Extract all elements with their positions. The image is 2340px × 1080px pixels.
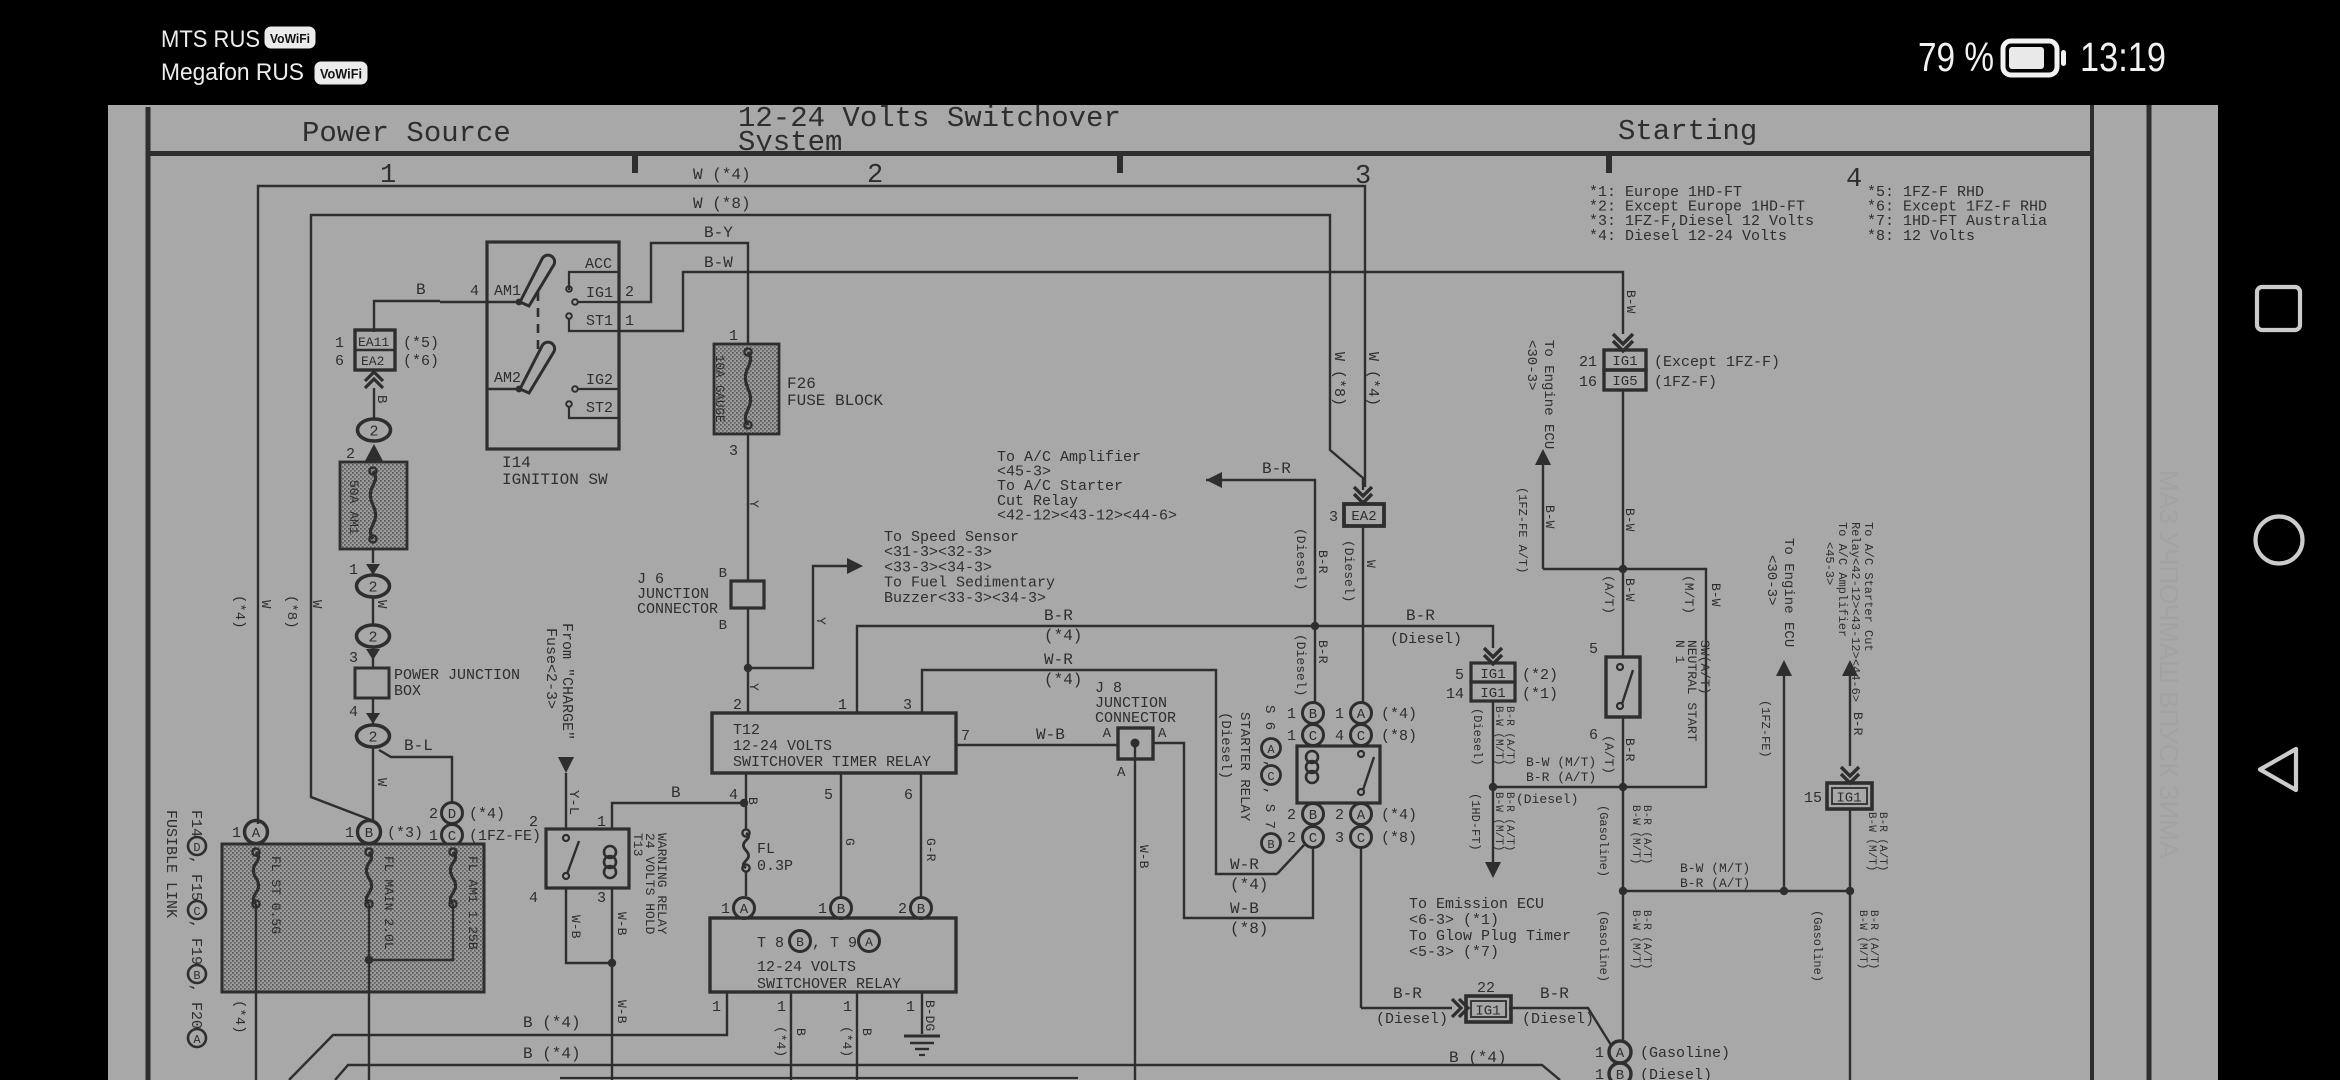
svg-text:(*4): (*4): [773, 1026, 788, 1057]
annotation To A/C Starter Cut Relay (rotated): [1822, 522, 1875, 702]
page right border line inner: [2090, 105, 2094, 1080]
svg-text:4: 4: [470, 283, 479, 300]
svg-text:VoWiFi: VoWiFi: [320, 67, 362, 82]
label (Diesel) rotated: [1217, 712, 1233, 779]
svg-text:W: W: [257, 600, 273, 609]
wire below gasoline junction right: [1810, 891, 1879, 1080]
svg-text:To Emission ECU: To Emission ECU: [1409, 896, 1544, 913]
svg-text:To A/C Starter Cut: To A/C Starter Cut: [1861, 522, 1875, 652]
svg-text:EA2: EA2: [361, 354, 384, 369]
wire G from T12 pin5: [841, 773, 857, 897]
svg-text:B-R (A/T): B-R (A/T): [1503, 706, 1515, 765]
svg-text:, S 7: , S 7: [1261, 787, 1277, 829]
svg-text:6: 6: [335, 353, 344, 370]
svg-text:2: 2: [369, 424, 378, 441]
svg-text:2: 2: [368, 580, 377, 597]
svg-text:IG5: IG5: [1612, 374, 1637, 390]
svg-text:B-R: B-R: [1315, 550, 1330, 574]
battery icon: [2003, 41, 2066, 75]
wire W-R (*4) from T12 pin3: [922, 651, 1277, 874]
svg-text:B: B: [859, 1028, 874, 1036]
svg-text:B-R: B-R: [1540, 985, 1569, 1003]
section number 1: [380, 161, 396, 191]
chevron junction below EA2: [365, 372, 383, 388]
VoWiFi badge 1: [265, 27, 315, 48]
connector EA11/EA2: [335, 330, 439, 370]
connector 1-A (Gasoline): [1595, 1041, 1730, 1063]
fusible link FL ST 0.5G: [252, 848, 283, 1080]
svg-text:4: 4: [349, 704, 358, 721]
svg-text:W (*8): W (*8): [1330, 352, 1347, 406]
svg-text:B-W (M/T): B-W (M/T): [1856, 910, 1868, 969]
svg-text:(Gasoline): (Gasoline): [1596, 910, 1610, 982]
svg-text:IG1: IG1: [1475, 1004, 1500, 1020]
wire below IG1 5/14: [1470, 701, 1515, 791]
wire W-B from T13 pin4: [566, 888, 612, 963]
wire from 3C down to IG1 22: [1361, 848, 1452, 1008]
svg-text:(Gasoline): (Gasoline): [1640, 1045, 1730, 1062]
svg-text:From "CHARGE": From "CHARGE": [558, 623, 575, 740]
svg-text:B-W (M/T): B-W (M/T): [1629, 910, 1641, 969]
label B-R (Diesel) left of IG1 22: [1376, 985, 1448, 1028]
svg-text:Y-L: Y-L: [565, 790, 581, 815]
svg-text:B-W: B-W: [1622, 508, 1637, 532]
arrow into splice: [346, 444, 383, 463]
svg-text:B-W (M/T): B-W (M/T): [1526, 755, 1596, 770]
wire right from diesel junction: [1493, 755, 1706, 787]
svg-text:(*4): (*4): [1381, 807, 1417, 824]
wire W-B from T13 pin3 down: [608, 888, 629, 1080]
svg-text:(Diesel): (Diesel): [1341, 540, 1356, 602]
wire B(*4) from T8/T9 pin1 lower-left: [289, 992, 727, 1080]
junction connector J8: [1095, 680, 1176, 781]
svg-text:A: A: [1117, 765, 1126, 781]
connector 1-A below FL 0.3P: [721, 898, 755, 919]
svg-text:(Diesel): (Diesel): [1293, 634, 1308, 696]
wire B from EA11 to AM1: [374, 281, 440, 332]
svg-text:Diesel 12-24 Volts: Diesel 12-24 Volts: [1625, 228, 1787, 245]
fusible link FL AM1 1.25B: [365, 848, 480, 964]
section number 3: [1355, 162, 1371, 192]
I14 terminal AM2: [487, 370, 522, 392]
svg-text:B: B: [719, 566, 727, 582]
svg-text:B: B: [373, 395, 389, 403]
svg-text:IG2: IG2: [586, 372, 613, 389]
svg-text:B-R: B-R: [1850, 712, 1865, 736]
wire Y from F26 to J6: [746, 434, 761, 581]
svg-text:(*5): (*5): [403, 335, 439, 352]
svg-text:C: C: [1267, 770, 1274, 784]
VoWiFi badge 2: [315, 62, 367, 84]
svg-text:4: 4: [529, 890, 538, 907]
svg-text:B: B: [416, 281, 426, 299]
chevron into IG1 22: [1452, 999, 1468, 1017]
svg-text:Starting: Starting: [1618, 115, 1757, 148]
svg-text:(*8): (*8): [1381, 830, 1417, 847]
svg-text:(*4): (*4): [1230, 876, 1268, 894]
status bar carrier 2: Megafon RUS: [161, 59, 304, 86]
connector IG1 21 / IG5 16: [1579, 350, 1780, 391]
branch Y to speed sensor arrow: [748, 558, 863, 668]
wire W-R diagonal to 2C: [1230, 845, 1304, 894]
status bar carrier 1: MTS RUS: [161, 26, 260, 53]
svg-text:Buzzer<33-3><34-3>: Buzzer<33-3><34-3>: [884, 590, 1046, 607]
bypass wire B-W M/T: [1623, 569, 1723, 788]
pin 1 below 50A AM1: [349, 549, 380, 579]
svg-text:B-R: B-R: [1622, 738, 1637, 762]
svg-text:AM2: AM2: [494, 370, 521, 387]
svg-text:W: W: [308, 600, 324, 609]
fuse FL 0.3P: [742, 829, 793, 896]
svg-text:1: 1: [729, 328, 738, 345]
I14 contact ACC: [566, 256, 619, 292]
svg-text:15: 15: [1804, 790, 1822, 807]
svg-text:IG1: IG1: [1480, 686, 1505, 702]
svg-text:IG1: IG1: [1612, 354, 1637, 370]
svg-text:(1FZ-F): (1FZ-F): [1654, 374, 1717, 391]
svg-text:B-W: B-W: [1622, 578, 1637, 602]
horizontal wire at gasoline junction: [1623, 861, 1854, 895]
svg-text:2: 2: [529, 814, 538, 831]
relay T8/T9 12-24 VOLTS SWITCHOVER RELAY: [710, 918, 956, 993]
arrow and pin 3 of power junction box: [349, 647, 380, 668]
nav button: home (circle): [2256, 517, 2303, 564]
svg-text:IG1: IG1: [586, 285, 613, 302]
connector A pin 1: [232, 821, 268, 844]
wire B-R Diesel to IG1 5/14: [1315, 607, 1493, 648]
svg-text:Y: Y: [746, 500, 761, 508]
faint margin watermark: [2154, 470, 2184, 859]
svg-text:1: 1: [232, 825, 241, 842]
svg-text:, F19: , F19: [187, 920, 204, 965]
svg-text:B (*4): B (*4): [523, 1014, 581, 1032]
starter relay connectors bottom: [1287, 804, 1417, 848]
connector C pin 1 (1FZ-FE): [429, 825, 541, 846]
svg-text:1: 1: [818, 901, 827, 918]
svg-text:(1FZ-FE A/T): (1FZ-FE A/T): [1515, 487, 1529, 573]
connector 1-B: [818, 898, 852, 919]
svg-text:1: 1: [349, 562, 358, 579]
svg-text:2: 2: [429, 806, 438, 823]
label N1 NEUTRAL START SW(A/T): [1672, 640, 1712, 742]
svg-text:50A AM1: 50A AM1: [346, 480, 361, 535]
svg-text:(*8): (*8): [1381, 728, 1417, 745]
svg-text:(*4): (*4): [1044, 671, 1082, 689]
svg-text:B-R (A/T): B-R (A/T): [1640, 910, 1652, 969]
svg-text:(*4): (*4): [469, 806, 505, 823]
wire W-B from J8 down: [1135, 759, 1151, 1080]
svg-text:(A/T): (A/T): [1601, 735, 1616, 774]
svg-text:, F15: , F15: [187, 856, 204, 901]
svg-text:B: B: [793, 1028, 808, 1036]
label STARTER RELAY rotated: [1236, 712, 1252, 822]
pin 4 of power junction box: [349, 698, 380, 725]
svg-text:FUSE BLOCK: FUSE BLOCK: [787, 392, 883, 410]
svg-text:(*4): (*4): [231, 595, 247, 629]
section title: Starting: [1618, 115, 1757, 148]
ground symbol: [904, 1036, 940, 1055]
svg-text:C: C: [193, 905, 200, 919]
svg-text:<30-3>: <30-3>: [1523, 340, 1539, 390]
svg-text:S 6: S 6: [1261, 705, 1277, 730]
wire Y below J6 to T12 pin2: [744, 608, 761, 713]
svg-text:2: 2: [733, 697, 742, 714]
starter relay connectors top: [1287, 703, 1417, 746]
I14 contact ST1 pin 1: [566, 313, 634, 331]
label FUSIBLE LINK: [162, 810, 179, 918]
svg-text:(Diesel): (Diesel): [1470, 708, 1484, 766]
svg-text:To A/C Amplifier: To A/C Amplifier: [1835, 522, 1849, 637]
svg-text:NEUTRAL START: NEUTRAL START: [1684, 640, 1699, 742]
svg-text:(Diesel): (Diesel): [1522, 1011, 1594, 1028]
svg-text:IG1: IG1: [1836, 791, 1861, 807]
relay T12 12-24 VOLTS SWITCHOVER TIMER RELAY: [712, 697, 970, 804]
annotation From CHARGE Fuse<2-3>: [542, 623, 575, 740]
clock 13:19: [2080, 34, 2166, 80]
svg-text:EA11: EA11: [358, 335, 389, 350]
svg-text:F14: F14: [187, 810, 204, 837]
wire B-W from ignition ST1 to connector IG1: [619, 254, 1623, 334]
svg-text:F26: F26: [787, 375, 816, 393]
connector 2-B: [898, 898, 932, 919]
svg-text:B-W: B-W: [704, 254, 733, 272]
splice 2 (upper): [358, 419, 391, 441]
svg-text:16: 16: [1579, 374, 1597, 391]
svg-text:B-Y: B-Y: [704, 224, 733, 242]
svg-text:21: 21: [1579, 354, 1597, 371]
svg-text:12-24 VOLTS: 12-24 VOLTS: [757, 959, 856, 976]
svg-text:B-R: B-R: [1044, 607, 1073, 625]
wire B (*4) pin3 down: [839, 992, 874, 1080]
annotation To A/C Amplifier / A/C Starter Cut Relay: [997, 449, 1177, 524]
svg-text:Fuse<2-3>: Fuse<2-3>: [542, 628, 559, 709]
label F14 F15 F19 F20: [187, 810, 206, 1047]
svg-text:C: C: [1309, 729, 1317, 745]
svg-text:1: 1: [777, 999, 786, 1016]
svg-text:B: B: [1309, 707, 1317, 723]
svg-text:(1FZ-FE): (1FZ-FE): [1758, 700, 1772, 758]
wire down to emission ECU arrow: [1468, 787, 1578, 878]
svg-text:2: 2: [346, 446, 355, 463]
fusible link FL MAIN 2.0L: [365, 848, 396, 1080]
svg-text:B-W (M/T): B-W (M/T): [1865, 812, 1877, 871]
svg-text:B-DG: B-DG: [922, 1000, 937, 1031]
wire B-Y from ignition IG1 to fuse F26: [619, 224, 748, 344]
starter relay S6/S7 body: [1297, 746, 1380, 803]
svg-text:B-R: B-R: [1393, 985, 1422, 1003]
svg-text:3: 3: [597, 890, 606, 907]
svg-text:6: 6: [904, 787, 913, 804]
svg-text:(Diesel): (Diesel): [1217, 712, 1233, 779]
svg-text:, T 9: , T 9: [812, 935, 857, 952]
svg-text:2: 2: [368, 630, 377, 647]
svg-text:W: W: [1363, 560, 1378, 568]
svg-text:B: B: [365, 826, 373, 842]
svg-text:Megafon RUS: Megafon RUS: [161, 59, 304, 86]
wire W-B (*8) from J8 right to starter relay 2C: [1153, 743, 1313, 938]
svg-text:ACC: ACC: [585, 256, 612, 273]
splice 2 (middle): [357, 575, 390, 609]
svg-text:2: 2: [1335, 807, 1344, 824]
nav button: back (triangle): [2260, 749, 2296, 790]
svg-text:A: A: [1158, 726, 1167, 742]
svg-text:A: A: [865, 935, 873, 950]
svg-text:C: C: [1357, 729, 1365, 745]
svg-text:B-W: B-W: [1623, 290, 1638, 314]
svg-text:W-B: W-B: [614, 912, 629, 936]
svg-text:A: A: [252, 826, 261, 842]
svg-text:To Engine ECU: To Engine ECU: [1540, 340, 1556, 449]
nav button: recent apps (square): [2257, 287, 2300, 330]
footnote legend *5-*8: [1867, 184, 2047, 245]
I14 key symbol 1: [520, 255, 555, 306]
svg-text:1: 1: [1287, 728, 1296, 745]
svg-text:B-R (A/T): B-R (A/T): [1526, 770, 1596, 785]
svg-text:FL MAIN 2.0L: FL MAIN 2.0L: [381, 856, 396, 950]
svg-text:2: 2: [368, 730, 377, 747]
svg-text:C: C: [1309, 831, 1317, 847]
page left border line: [146, 107, 151, 1080]
svg-text:(Gasoline): (Gasoline): [1596, 805, 1610, 877]
wire B-R (*4) from T12 pin1: [857, 607, 1315, 713]
svg-text:B-R (A/T): B-R (A/T): [1680, 876, 1750, 891]
svg-text:B: B: [193, 969, 200, 983]
svg-text:G: G: [842, 838, 857, 846]
svg-text:1: 1: [335, 335, 344, 352]
svg-text:A: A: [193, 1033, 201, 1047]
svg-text:T 8: T 8: [757, 935, 784, 952]
svg-text:<6-3> (*1): <6-3> (*1): [1409, 912, 1499, 929]
svg-text:B: B: [1309, 808, 1317, 824]
wire W(*8) top run: [311, 195, 1363, 820]
svg-text:B-W (M/T): B-W (M/T): [1492, 706, 1504, 765]
svg-text:B-W: B-W: [1708, 583, 1723, 607]
svg-text:A: A: [1357, 707, 1366, 723]
svg-text:79 %: 79 %: [1918, 34, 1994, 80]
svg-text:W (*8): W (*8): [693, 195, 751, 213]
svg-text:IG1: IG1: [1480, 667, 1505, 683]
svg-text:B: B: [719, 618, 727, 634]
svg-text:STARTER RELAY: STARTER RELAY: [1236, 712, 1252, 822]
section title: 12-24 Volts Switchover System: [738, 102, 1121, 159]
arrow to engine ECU 1FZ-FE: [1758, 660, 1792, 891]
power junction box: [355, 667, 520, 700]
svg-text:(Diesel): (Diesel): [1516, 792, 1578, 807]
svg-text:(Diesel): (Diesel): [1293, 528, 1308, 590]
section title: Power Source: [302, 117, 511, 150]
svg-text:1: 1: [1595, 1067, 1604, 1080]
wire B-R (Diesel) from IG1 22 to connector A: [1509, 985, 1611, 1045]
svg-text:4: 4: [1335, 728, 1344, 745]
svg-text:B: B: [671, 784, 681, 802]
relay T13 24 VOLTS HOLD WARNING RELAY: [529, 814, 669, 935]
svg-text:POWER JUNCTION: POWER JUNCTION: [394, 667, 520, 684]
svg-text:A: A: [1616, 1046, 1625, 1062]
svg-text:B-W (M/T): B-W (M/T): [1492, 792, 1504, 851]
I14 contact IG1 pin 2: [572, 284, 634, 305]
svg-text:(*4): (*4): [839, 1026, 854, 1057]
svg-text:<45-3>: <45-3>: [1822, 542, 1836, 585]
svg-text:W-B: W-B: [1036, 726, 1065, 744]
svg-text:4: 4: [1846, 165, 1862, 195]
svg-text:D: D: [448, 807, 456, 823]
svg-text:2: 2: [898, 901, 907, 918]
svg-text:(*1): (*1): [1522, 686, 1558, 703]
svg-text:6: 6: [1589, 727, 1598, 744]
svg-text:1: 1: [712, 999, 721, 1016]
svg-text:Relay<42-12><43-12><44-6>: Relay<42-12><43-12><44-6>: [1848, 522, 1862, 702]
svg-text:FL ST 0.5G: FL ST 0.5G: [268, 856, 283, 934]
svg-text:B-W (M/T): B-W (M/T): [1629, 805, 1641, 864]
wire W (Diesel) from EA2 down: [1341, 525, 1378, 702]
svg-text:B (*4): B (*4): [1449, 1049, 1507, 1067]
svg-text:*8:: *8:: [1867, 228, 1894, 245]
svg-text:B-L: B-L: [404, 737, 433, 755]
wire B from T13 pin1 to T12 pin4: [612, 784, 744, 829]
svg-text:WARNING RELAY: WARNING RELAY: [654, 833, 669, 935]
I14 contact ST2: [566, 400, 619, 418]
svg-text:МАЗ УЧПОЧМАШ ВПУСК ЗИМА: МАЗ УЧПОЧМАШ ВПУСК ЗИМА: [2154, 470, 2184, 859]
fuse F26 10A GAUGE: [712, 328, 883, 460]
svg-text:W-B: W-B: [568, 915, 583, 939]
svg-text:(Gasoline): (Gasoline): [1810, 910, 1824, 982]
svg-text:W (*4): W (*4): [1364, 352, 1381, 406]
fusible link block: [222, 844, 484, 992]
svg-text:FL: FL: [757, 841, 775, 858]
svg-text:A: A: [1357, 808, 1366, 824]
junction connector J6: [637, 566, 764, 634]
annotation To Speed Sensor / Fuel Sedimentary Buzzer: [884, 529, 1055, 607]
wire W(*4) top run: [258, 166, 1365, 824]
wire W(*4) vertical label: [1364, 352, 1381, 406]
wire below IG1 15: [1850, 808, 1888, 891]
svg-text:<30-3>: <30-3>: [1763, 555, 1779, 605]
svg-text:(Except 1FZ-F): (Except 1FZ-F): [1654, 354, 1780, 371]
svg-text:3: 3: [1329, 509, 1338, 526]
svg-text:(Diesel): (Diesel): [1376, 1011, 1448, 1028]
wire from T12 pin4 through FL 0.3P: [745, 773, 747, 830]
wire B-W from IG5 down to N1 switch: [1601, 390, 1637, 657]
label (*4) below fusible link: [231, 1000, 247, 1034]
svg-text:EA2: EA2: [1351, 509, 1376, 525]
connector IG1 pin 22: [1466, 980, 1511, 1022]
section divider tick 2: [1117, 156, 1123, 173]
svg-text:B-R: B-R: [1406, 607, 1435, 625]
svg-text:3: 3: [729, 443, 738, 460]
svg-text:Y: Y: [746, 683, 761, 691]
svg-text:A: A: [740, 902, 749, 918]
ignition switch I14 body: [487, 242, 619, 489]
svg-text:B-R (A/T): B-R (A/T): [1640, 805, 1652, 864]
svg-text:7: 7: [961, 728, 970, 745]
wire B-L branch: [379, 737, 452, 802]
svg-text:BOX: BOX: [394, 683, 421, 700]
svg-text:1: 1: [1287, 706, 1296, 723]
wire down to connector A gasoline: [1596, 891, 1652, 1041]
header horizontal rule: [146, 151, 2094, 156]
I14 key symbol 2: [520, 342, 555, 393]
wire partial bottom edge: [560, 1077, 1078, 1079]
svg-text:(*4): (*4): [1381, 706, 1417, 723]
svg-text:W-B: W-B: [614, 1000, 629, 1024]
svg-text:(1HD-FT): (1HD-FT): [1468, 793, 1482, 851]
branch to engine ECU 1FZ-FE A/T: [1515, 449, 1623, 573]
svg-text:10A GAUGE: 10A GAUGE: [712, 355, 726, 423]
svg-text:MTS RUS: MTS RUS: [161, 26, 260, 53]
svg-text:12-24 VOLTS: 12-24 VOLTS: [733, 738, 832, 755]
svg-text:5: 5: [824, 787, 833, 804]
wire W(*8) vertical label: [1330, 352, 1347, 406]
